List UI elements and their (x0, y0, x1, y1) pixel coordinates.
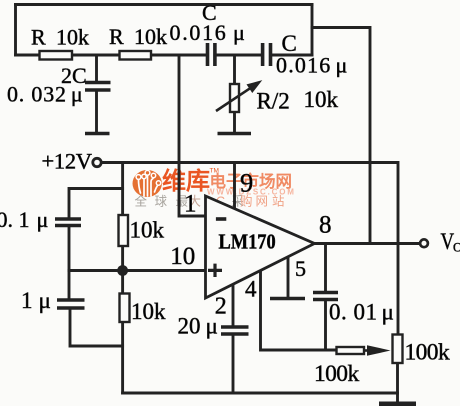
capacitor C1 0.016u (170, 0, 245, 66)
wire top rail (16, 3, 313, 6)
ground symbol bottom (379, 402, 416, 406)
wire R/2 stem lower (233, 112, 236, 132)
svg-text:5: 5 (295, 256, 306, 281)
resistor 100k horizontal (314, 347, 364, 387)
capacitor 2C 0.032u (7, 63, 111, 107)
svg-text:0. 1μ: 0. 1μ (0, 207, 48, 232)
wire twin-T middle line segments (16, 54, 40, 57)
svg-text:10k: 10k (131, 299, 166, 324)
wire pin 2 stem (232, 285, 235, 326)
wire 0.1u branch (69, 189, 123, 218)
svg-text:10k: 10k (304, 87, 339, 112)
wire right edge of twin-T frame (311, 5, 314, 56)
svg-text:0.016μ: 0.016μ (276, 52, 347, 77)
capacitor C2 0.016u (263, 31, 348, 77)
+12V supply terminal (42, 149, 102, 174)
watermark logo circle (133, 170, 162, 197)
wire pin 9 supply stem (233, 163, 236, 210)
svg-text:100k: 100k (314, 361, 359, 387)
wire left edge of twin-T frame (14, 5, 17, 56)
ground bar under 2C (85, 132, 110, 136)
svg-text:R: R (109, 24, 124, 49)
wire R/2 stem upper (233, 55, 236, 84)
wire pot bottom to ground bar (396, 363, 399, 402)
potentiometer R/2 10k (216, 81, 339, 114)
svg-text:10k: 10k (130, 218, 165, 243)
wire pin 5 stem (287, 257, 290, 297)
svg-text:LM170: LM170 (219, 230, 276, 253)
svg-text:0. 01μ: 0. 01μ (329, 300, 394, 325)
wire 2C stem lower (95, 92, 98, 132)
svg-text:9: 9 (240, 168, 253, 198)
wire 0.01u top stem (324, 244, 327, 292)
wire supply drop to bias divider (121, 163, 124, 216)
svg-text:+12V: +12V (42, 149, 92, 174)
svg-text:20μ: 20μ (178, 314, 218, 339)
resistor 10k upper bias (119, 215, 165, 246)
node junction dot at divider midpoint (117, 265, 128, 276)
ground bar under R/2 (218, 132, 252, 136)
wire 2C stem upper (95, 55, 98, 81)
svg-text:10: 10 (170, 243, 195, 270)
svg-text:R/2: R/2 (257, 89, 290, 114)
resistor R2 10k (109, 24, 167, 60)
svg-text:100k: 100k (405, 340, 450, 366)
svg-text:10k: 10k (134, 24, 167, 49)
output terminal Vo (420, 228, 460, 254)
capacitor 0.1u (0, 207, 81, 232)
svg-text:4: 4 (245, 277, 257, 302)
wire divider middle (121, 246, 124, 294)
wire output (315, 242, 420, 245)
capacitor 0.01u (313, 293, 394, 325)
wire 0.01u bottom stem (324, 301, 327, 350)
wire 0.1u bottom / 1u top vertical (68, 227, 71, 299)
wire 1u bottom to divider (70, 309, 123, 346)
potentiometer 100k vertical (393, 335, 450, 366)
wire pin 10 input (69, 269, 205, 272)
wire pin 4 stem and run to 100k (261, 271, 337, 350)
svg-text:O: O (453, 240, 460, 255)
wire 20u bottom stem (232, 336, 235, 394)
resistor R1 10k (31, 25, 89, 60)
wire feedback tap from frame to output (312, 28, 370, 244)
svg-text:0.016μ: 0.016μ (170, 20, 245, 45)
resistor 10k lower bias (120, 294, 167, 325)
wire +12V rail (102, 163, 399, 335)
wire divider bottom to ground rail (121, 322, 124, 393)
op-amp U1 LM170 (206, 196, 315, 298)
svg-text:0. 032μ: 0. 032μ (7, 82, 83, 107)
svg-text:8: 8 (319, 212, 332, 239)
watermark text 维库 (162, 167, 219, 195)
pot wiper arrow into 100k pot (364, 345, 391, 356)
wire bottom ground rail (123, 392, 398, 395)
wire inverting input drop from twin-T to pin 1 (179, 55, 205, 216)
svg-text:R: R (31, 25, 46, 50)
capacitor 20u (178, 314, 249, 339)
ground bar under pin 5 (270, 297, 305, 300)
capacitor 1u (21, 288, 85, 313)
svg-text:1: 1 (184, 191, 197, 218)
svg-text:10k: 10k (56, 25, 89, 50)
